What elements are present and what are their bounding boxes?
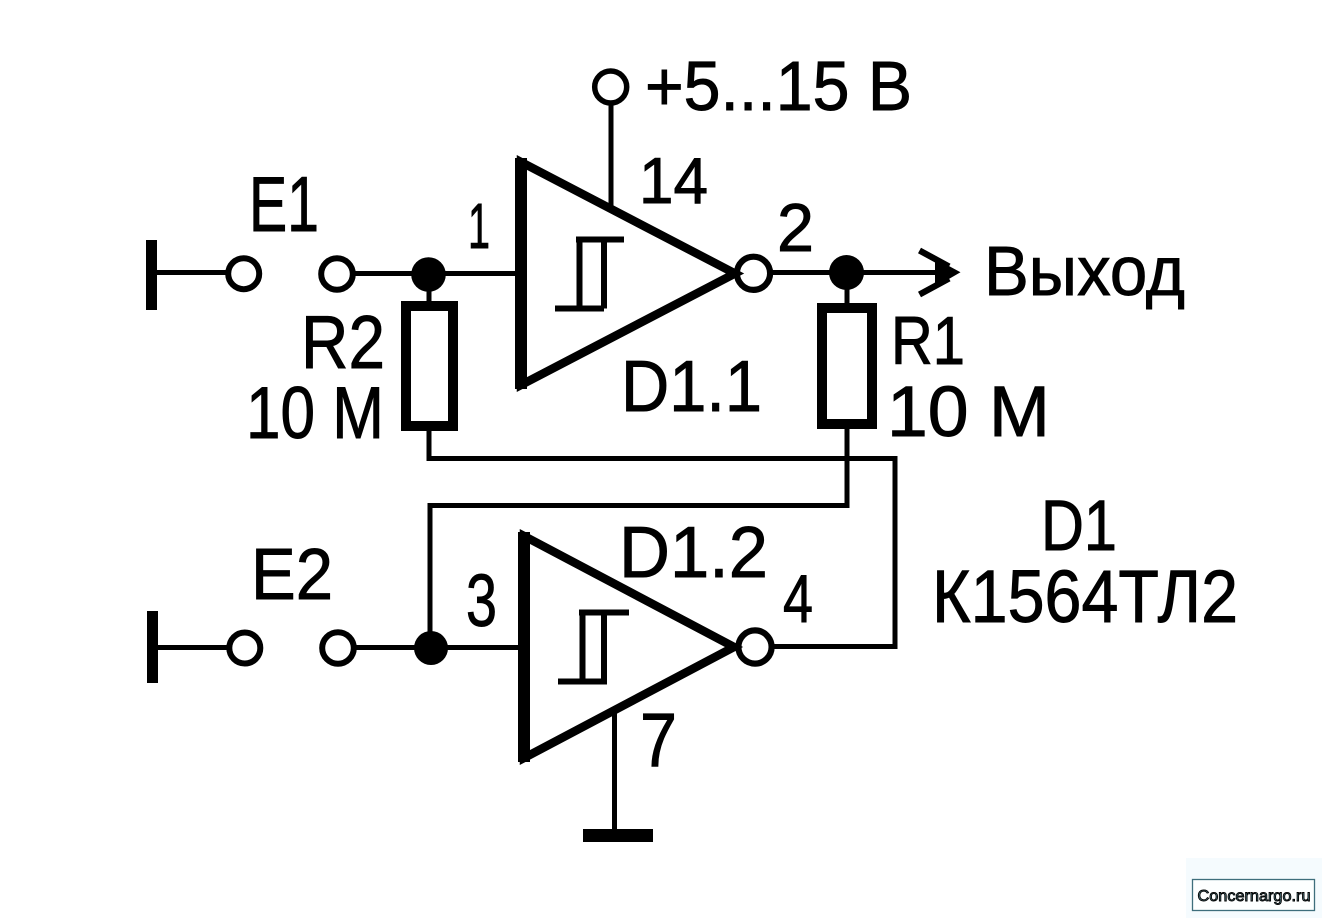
watermark Concernargo.ru [1186, 858, 1322, 918]
terminal circle E2 left [229, 633, 260, 664]
svg-text:14: 14 [639, 144, 708, 217]
svg-text:E1: E1 [249, 160, 319, 248]
output arrow head [920, 251, 961, 295]
resistor R2 [406, 288, 453, 426]
pin number 1 [468, 190, 490, 262]
hysteresis symbol D1.2 [558, 613, 629, 682]
label K1564TL2 [932, 555, 1238, 638]
svg-text:E2: E2 [251, 535, 333, 615]
Schmitt trigger D1.1 [521, 158, 735, 389]
svg-text:1: 1 [468, 190, 490, 262]
wire R2 bottom feedback to D1.2 output [429, 426, 895, 647]
svg-text:4: 4 [783, 561, 813, 637]
wire E2 terminal to node 3 [355, 645, 417, 650]
wire plate E1 to terminal [155, 270, 227, 275]
node junction pin3 [414, 631, 448, 665]
label D1.2 [619, 513, 768, 593]
wire pin 7 to ground [612, 710, 617, 832]
wire E1 terminal to node 1 [354, 271, 414, 276]
node junction pin1 [411, 257, 446, 292]
output bubble D1.1 [737, 257, 770, 290]
label E1 [249, 160, 319, 248]
svg-text:R2: R2 [301, 300, 385, 384]
wire power to pin 14 [609, 104, 614, 208]
label R2 [301, 300, 385, 384]
wire D1.1 output to node 2 [769, 270, 832, 275]
wire node 2 to output arrow [863, 270, 938, 275]
label Output (Выход) [984, 232, 1185, 310]
terminal circle E1 left [228, 258, 259, 289]
svg-text:К1564ТЛ2: К1564ТЛ2 [932, 555, 1238, 638]
svg-text:3: 3 [466, 559, 497, 642]
wire plate E2 to terminal [156, 645, 229, 650]
wire node to gate D1.1 input [444, 271, 523, 276]
wire R1 bottom feedback to node 3 [430, 424, 847, 634]
svg-text:Concernargo.ru: Concernargo.ru [1198, 888, 1311, 905]
svg-text:10 М: 10 М [246, 373, 384, 454]
touch plate E1 [146, 240, 157, 310]
value 10 M (R1) [887, 373, 1050, 452]
hysteresis symbol D1.1 [555, 240, 624, 309]
ground [583, 829, 653, 842]
pin number 7 [640, 698, 677, 783]
svg-text:2: 2 [777, 190, 814, 266]
pin number 2 [777, 190, 814, 266]
label E2 [251, 535, 333, 615]
wire node 3 to gate D1.2 input [447, 645, 526, 650]
resistor R1 [822, 287, 872, 424]
touch plate E2 [147, 611, 158, 683]
node junction pin2 [829, 255, 864, 290]
svg-text:7: 7 [640, 698, 677, 783]
power label +5...15 V [645, 47, 912, 125]
label R1 [891, 303, 965, 379]
svg-text:Выход: Выход [984, 232, 1185, 310]
label D1.1 [621, 347, 762, 427]
output bubble D1.2 [738, 630, 771, 663]
value 10 M (R2) [246, 373, 384, 454]
svg-text:D1.2: D1.2 [619, 513, 768, 593]
terminal circle E2 right [322, 632, 354, 664]
pin number 14 [639, 144, 708, 217]
svg-text:R1: R1 [891, 303, 965, 379]
svg-text:10 М: 10 М [887, 373, 1050, 452]
terminal circle E1 right [321, 258, 353, 290]
pin number 4 [783, 561, 813, 637]
label D1 [1041, 487, 1117, 566]
Schmitt trigger D1.2 [524, 532, 734, 762]
power terminal circle [595, 71, 627, 103]
svg-text:D1.1: D1.1 [621, 347, 762, 427]
svg-text:+5...15 В: +5...15 В [645, 47, 912, 125]
pin number 3 [466, 559, 497, 642]
